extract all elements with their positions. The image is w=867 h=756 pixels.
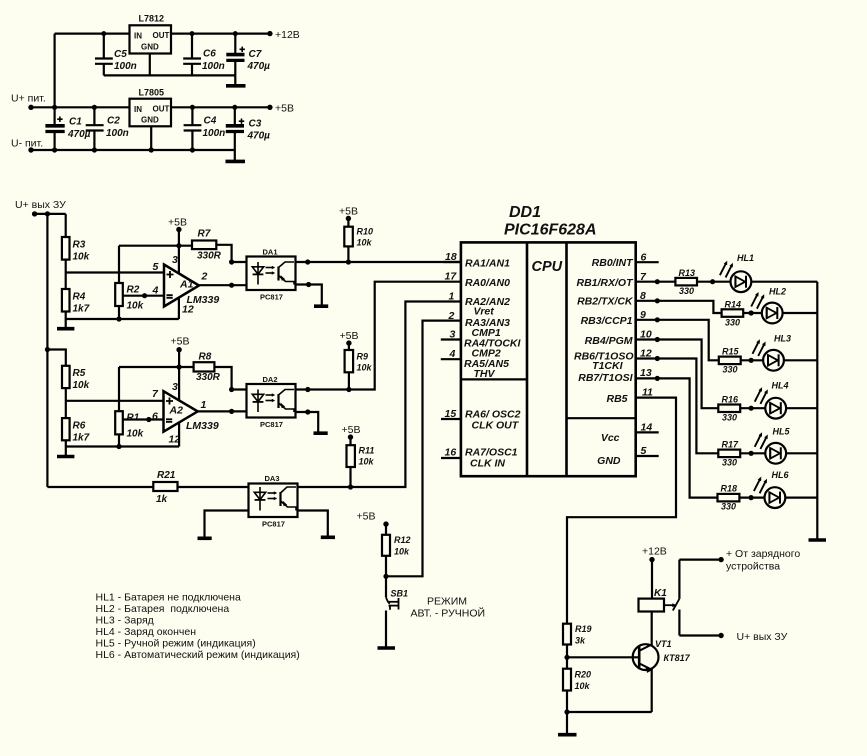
label +5V R12 [357,511,376,523]
svg-text:R11: R11 [359,446,375,456]
svg-text:+5В: +5В [342,424,361,436]
label L7805 [134,88,170,125]
label LM339 [186,420,219,432]
node +5V A1 dot [176,227,181,232]
node junction after R16 [749,406,754,411]
svg-text:SB1: SB1 [391,589,409,599]
node junction C4 bottom [190,147,195,152]
op-amp A1 LM339 [164,265,199,307]
label RB7/T1OSI [578,372,633,384]
svg-text:HL5 - Ручной режим (индикация): HL5 - Ручной режим (индикация) [96,638,256,650]
wire L7812 output to +12V [171,32,270,34]
wire DA3 emitter to ground [298,511,328,536]
label R17 330 [722,440,740,468]
node junction pin8 [655,298,660,303]
label GND [597,455,621,467]
node junction on A2 output [229,409,234,414]
ground under C3 [226,150,246,161]
label PC817 DA3 [262,520,285,529]
svg-text:CPU: CPU [532,259,563,275]
svg-text:CLK IN: CLK IN [470,458,505,470]
resistor R12 [382,535,390,556]
wire pin9 to R15 [636,320,719,361]
svg-text:15: 15 [445,408,457,420]
label C4 100n [203,116,226,140]
svg-text:RB4/PGM: RB4/PGM [585,335,633,347]
svg-text:OUT: OUT [153,31,170,40]
svg-text:470µ: 470µ [247,131,271,142]
svg-text:PC817: PC817 [260,293,283,302]
label VT1 [655,639,672,649]
label pin3 [172,254,178,266]
capacitor C6 [183,31,201,75]
svg-text:R21: R21 [157,470,176,481]
svg-text:HL2 - Батарея подключена: HL2 - Батарея подключена [96,603,230,615]
label legend line6 [96,649,300,661]
label Vcc [601,432,620,444]
label HL5 [773,427,791,437]
svg-text:L7805: L7805 [139,88,165,98]
pin 4 stub and number [441,358,461,360]
wire pin13 to R18 [636,378,718,497]
wire U+ input [31,106,130,108]
label R7 330R [197,229,222,262]
ground DA3 left [198,536,212,540]
wire R15 to HL3 [741,359,763,361]
svg-text:5: 5 [641,445,647,457]
svg-text:18: 18 [445,251,457,263]
LED HL4 [755,387,786,418]
svg-text:PIC16F628A: PIC16F628A [504,222,597,239]
label R13 330 [679,268,696,296]
resistor R20 [563,669,571,691]
node junction after R18 [749,495,754,500]
wire base [567,656,639,658]
wire HL3 to rail [784,359,817,361]
node output terminal [718,633,723,638]
wire left vertical input rail [53,34,55,108]
label R16 330 [722,395,740,423]
node +5V R12 dot [383,521,388,526]
resistor R21 [153,482,177,491]
label RA1/AN1 [465,258,510,270]
node junction R1 bottom [116,444,121,449]
svg-text:10k: 10k [359,457,375,467]
svg-text:330: 330 [722,458,737,468]
svg-text:HL6: HL6 [772,470,790,480]
label pin1 A2 [201,399,207,411]
wire R19 to R20 [566,645,568,669]
wire R2 bottom lead [118,306,120,319]
svg-text:10k: 10k [73,252,90,263]
label HL4 [772,381,789,391]
resistor R5 [62,366,70,388]
label SB1 [391,589,409,599]
node junction R10 on pin18 wire [346,259,351,264]
wire DA3 cathode to ground [205,511,249,537]
wire +12V to coil [651,560,653,599]
wire R18 to HL6 [739,497,764,499]
wire left rail vertical [46,214,48,487]
svg-text:R1: R1 [127,413,140,424]
svg-text:100n: 100n [203,128,226,139]
svg-text:100n: 100n [106,128,129,139]
wire DA2 emitter to ground [296,412,319,432]
wire R3-R4 link [65,260,67,289]
label +5V R11 [342,424,361,436]
svg-text:+5В: +5В [340,330,359,342]
wire L7812 input [55,32,130,34]
ground under C7 [226,75,246,85]
svg-text:CLK OUT: CLK OUT [472,420,520,432]
wire A2 pin12 to ground rail [178,423,180,447]
label +12V [275,29,300,41]
label +5V [275,103,294,115]
label CPU [532,259,563,275]
wire L7812 gnd stub [149,54,151,76]
label RB1/RX/OT [576,277,634,289]
wire contact to output terminal [679,634,721,636]
label C2 100n [106,116,129,140]
wire L7805 output to +5V [171,106,270,108]
label R1 10k [127,413,144,440]
svg-text:6: 6 [641,252,647,264]
svg-text:RB1/RX/OT: RB1/RX/OT [576,277,634,289]
wire R8 to DA2 anode [214,367,246,390]
label C1 470u [67,117,91,141]
node junction base [564,655,569,660]
node junction pin13 [655,376,660,381]
svg-text:R8: R8 [199,352,212,363]
label U- pit [11,138,43,150]
svg-text:DA1: DA1 [263,248,278,257]
node junction on DA2 collector wire [305,387,310,392]
svg-text:10k: 10k [575,681,591,691]
svg-text:R2: R2 [127,285,140,296]
resistor R7 [192,241,216,250]
svg-text:RB2/TX/CK: RB2/TX/CK [577,296,634,308]
pin 10 number [640,329,652,341]
node junction pin9 [655,317,660,322]
node +5V terminal [267,105,272,110]
label +5V R10 [339,206,358,218]
label R21 1k [156,470,176,505]
node junction pin7 [655,279,660,284]
wire R7 to DA1 anode [216,245,246,262]
label DA3 [265,474,280,483]
resistor R19 [563,624,571,645]
label legend line1 [96,592,241,604]
wire R4 bottom lead [65,312,67,320]
svg-text:GND: GND [597,455,621,467]
svg-text:R20: R20 [575,670,592,680]
label A1 [179,279,194,291]
svg-text:U+ вых ЗУ: U+ вых ЗУ [737,631,788,643]
svg-text:C5: C5 [114,49,127,60]
wire R6 bottom lead [65,440,67,446]
svg-text:+5В: +5В [168,217,187,229]
node +12V terminal [267,31,272,36]
svg-text:HL1: HL1 [737,253,754,263]
node junction R11 on DA3 collector wire [348,484,353,489]
wire collector to relay [651,612,653,646]
node +5V A2 dot [176,347,181,352]
ground bottom [558,712,577,735]
node junction on pin18 wire [305,259,310,264]
svg-text:R3: R3 [73,240,86,251]
svg-text:1: 1 [449,291,455,303]
label R9 10k [357,352,373,373]
svg-text:PC817: PC817 [262,520,285,529]
pin 7 number [640,271,647,283]
label pin4 [152,285,159,297]
svg-text:10k: 10k [357,238,373,248]
resistor R1 [115,411,123,434]
wire HL6 to rail [785,497,817,499]
wire R2 top lead to feedback line [118,246,120,283]
wire A2 stage ground rail [66,445,179,447]
svg-text:IN: IN [134,32,142,41]
svg-text:RB5: RB5 [606,393,627,405]
node junction R12/SB1 [383,574,388,579]
resistor R15 [719,357,741,365]
wire left rail to R21 [47,486,153,488]
wire R11 top lead [349,437,351,445]
resistor R17 [718,450,740,458]
node U+ terminal [28,105,33,110]
svg-text:10k: 10k [127,429,144,440]
LED HL2 [751,292,782,323]
label HL3 [774,334,791,344]
wire R20 bottom lead [566,691,568,713]
wire R12 top lead [385,524,387,535]
resistor R9 [345,350,354,372]
wire feedback line to R8 [119,366,194,368]
capacitor C1 electrolytic [45,107,64,150]
svg-text:C1: C1 [69,117,82,128]
resistor R18 [718,494,740,502]
wire emitter return [567,711,652,713]
label U+ vyh ZU out [737,631,788,643]
wire +5V to A1 pin3 [178,230,180,274]
svg-text:RB0/INT: RB0/INT [592,257,634,269]
svg-text:HL3 - Заряд: HL3 - Заряд [96,615,154,627]
svg-text:3: 3 [172,254,178,266]
node junction gnd stub [149,147,154,152]
resistor R2 [115,283,123,306]
node junction DA1 emitter [306,282,311,287]
node junction C1 bottom [52,147,57,152]
label pin5 [153,261,159,273]
svg-text:Vret: Vret [474,306,495,318]
wire HL1 to rail [751,281,817,283]
label L7812 [134,14,170,52]
wire pin6 input [123,418,164,420]
wire R10 bottom lead [347,246,349,262]
svg-text:+12В: +12В [275,29,300,41]
node junction branch R5 [45,347,50,352]
wire pin12 to R17 [636,359,719,454]
svg-text:330: 330 [722,413,737,423]
resistor R6 [62,418,70,440]
wire U+ vyh ZU to R3 [35,213,66,215]
label R2 10k [127,285,144,312]
wire DA3 collector to chip pin1 [298,302,461,488]
svg-text:10k: 10k [394,547,410,557]
capacitor C2 [86,107,104,150]
svg-text:R4: R4 [73,292,86,303]
label RA6/OSC2 CLK OUT [465,409,521,432]
svg-text:R10: R10 [357,227,374,237]
regulator U-L7805 box [130,99,172,127]
label pin3 A2 [172,381,178,393]
label +12V relay [642,546,667,558]
label DA2 [263,375,278,384]
wire HL2 to rail [783,312,818,314]
svg-text:330: 330 [725,318,740,328]
relay K1 coil [639,599,665,612]
svg-text:HL5: HL5 [773,427,791,437]
label +5V A1 [168,217,187,229]
label RA3/AN3 CMP1 [465,317,510,339]
node corner dot R8-DA2 [229,387,234,392]
pin 18 stub and number [444,261,461,263]
svg-text:КТ817: КТ817 [664,653,691,663]
label legend line4 [96,626,197,638]
label PIC16F628A [504,222,597,239]
wire pin7 input [66,400,164,402]
svg-text:C6: C6 [203,49,216,60]
svg-text:470µ: 470µ [247,61,271,72]
wire contact to charger terminal [679,558,721,560]
svg-text:VT1: VT1 [655,639,672,649]
node junction on pin6 wire [146,417,151,422]
pin 8 number [640,290,646,302]
node junction pin10 [655,337,660,342]
wire R1 bottom lead [118,434,120,446]
wire L7805 gnd stub [150,126,152,150]
wire coil to contact arm [664,604,673,606]
ground LED rail [809,538,827,542]
wire U- rail [31,149,235,151]
svg-text:GND: GND [141,116,159,125]
node +5V R9 dot [346,340,351,345]
svg-text:THV: THV [474,368,496,380]
label C3 470u [247,119,271,142]
svg-text:330: 330 [723,365,738,375]
svg-text:HL2: HL2 [769,287,786,297]
wire pin8 to R14 [636,301,722,313]
label RA7/OSC1 CLK IN [465,447,518,470]
pin 12 number [640,348,652,360]
node junction after R17 [749,451,754,456]
capacitor C3 electrolytic [226,105,244,150]
node junction emitter return [564,709,569,714]
resistor R10 [344,227,353,247]
label pin2 [201,271,208,283]
svg-text:LM339: LM339 [186,420,219,432]
capacitor C4 [184,105,202,150]
svg-text:+5В: +5В [357,511,376,523]
label RB2/TX/CK [577,296,634,308]
node charger terminal [718,557,723,562]
wire A2 output to DA2 [198,410,247,412]
wire feedback line to R7 [119,245,192,247]
node junction DA2 emitter [305,409,310,414]
svg-text:3k: 3k [575,636,586,646]
svg-text:OUT: OUT [153,104,170,113]
node +5V R10 dot [346,216,351,221]
svg-text:HL1 - Батарея не подключена: HL1 - Батарея не подключена [96,592,241,604]
wire R10 top lead [347,219,349,227]
label K1 [654,588,667,599]
svg-text:K1: K1 [654,588,667,599]
label RA0/AN0 [465,277,510,289]
svg-text:330: 330 [679,286,694,296]
label HL2 [769,287,786,297]
pin 13 number [640,367,652,379]
wire HL5 to rail [786,452,817,454]
wire R1 top lead to feedback line [118,367,120,411]
label legend line2 [96,603,230,615]
node junction C1/L7812 [52,105,57,110]
svg-text:U+ пит.: U+ пит. [11,93,46,105]
wire R3 top lead [65,214,67,237]
node U+ vyh ZU terminal [32,211,37,216]
pin 2 number [448,310,455,322]
label RB4/PGM [585,335,633,347]
svg-text:R6: R6 [73,421,86,432]
LED HL3 [753,339,784,370]
pin 9 number [640,309,646,321]
svg-text:+5В: +5В [339,206,358,218]
svg-text:4: 4 [449,348,456,360]
pin 11 number [642,387,653,399]
wire R9 bottom lead [348,372,350,389]
label DA1 [263,248,278,257]
svg-text:12: 12 [182,304,194,316]
label +5V R9 [340,330,359,342]
label R8 330R [196,352,221,384]
svg-text:2: 2 [201,271,208,283]
capacitor C5 [95,31,113,75]
chip DD1 outline [461,242,636,476]
optocoupler DA2 PC817 [247,384,296,418]
svg-text:R13: R13 [679,268,696,278]
label RB6/T1OSO T1CKI [574,351,634,373]
label legend line3 [96,615,154,627]
resistor R8 [194,362,215,371]
node junction after R13 [710,279,715,284]
LED HL6 [754,477,785,508]
wire pin10 to R16 [636,340,719,409]
svg-text:17: 17 [445,271,458,283]
node corner dot R7-DA1 [229,259,234,264]
node +12V dot [649,557,654,562]
svg-text:устройства: устройства [726,561,780,573]
wire A1 output to DA1 [199,284,247,286]
svg-text:R9: R9 [357,352,369,362]
svg-text:R14: R14 [725,300,742,310]
svg-text:РЕЖИМ: РЕЖИМ [427,596,467,608]
capacitor C7 electrolytic [226,31,245,75]
svg-text:IN: IN [134,105,142,114]
label ot zaryadnogo [726,548,800,573]
label RB0/INT [592,257,634,269]
svg-text:T1CKI: T1CKI [592,360,623,372]
svg-text:DA3: DA3 [265,474,280,483]
label R14 330 [725,300,742,328]
